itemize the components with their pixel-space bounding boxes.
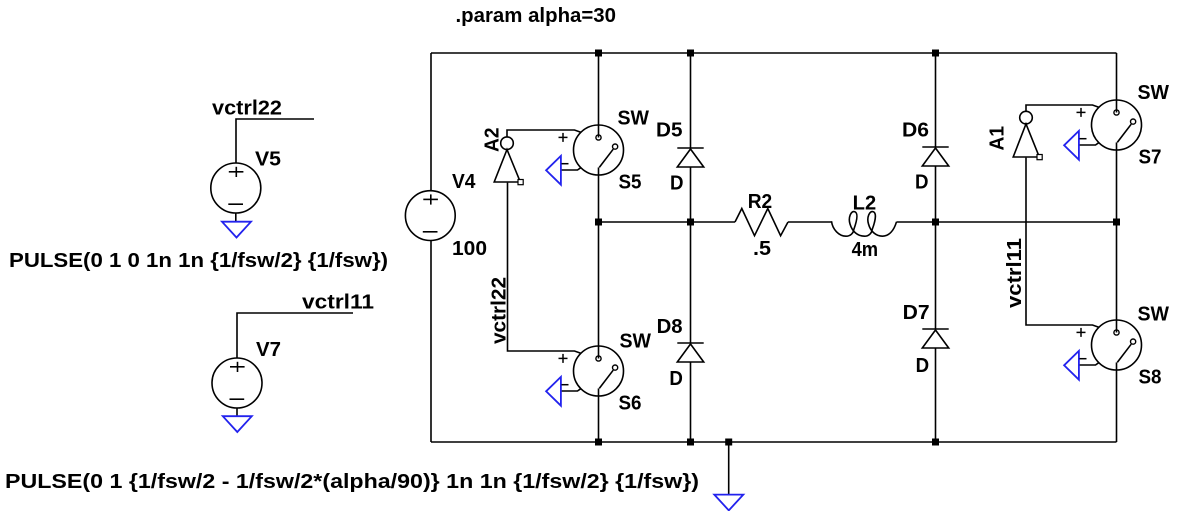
wire D6-column lower (D6 to mid rail) (935, 166, 937, 222)
wire D5-column upper (top rail to D5) (690, 53, 692, 148)
wire right rail top (top rail to S7) (1116, 53, 1118, 113)
diode D5 (677, 147, 703, 149)
svg-text:S7: S7 (1139, 147, 1162, 169)
svg-text:vctrl11: vctrl11 (302, 291, 374, 313)
resistor R2 (735, 209, 788, 236)
switch S8 body (1092, 320, 1142, 370)
diode D7 (922, 328, 948, 330)
wire A2 input to S6 + pin (vctrl22 net) (508, 183, 581, 354)
wire mid rail left (S-col to R2) (599, 221, 736, 223)
svg-text:A2: A2 (482, 128, 504, 153)
svg-text:D8: D8 (657, 316, 683, 338)
voltage source V5 (211, 163, 261, 213)
wire D5-column lower (D5 to mid rail) (690, 167, 692, 222)
voltage source V4 (405, 191, 455, 241)
svg-text:PULSE(0 1 0 1n 1n {1/fsw/2} {1: PULSE(0 1 0 1n 1n {1/fsw/2} {1/fsw}) (9, 250, 388, 272)
wire S-column top (top rail to S5) (598, 53, 600, 138)
switch S7 - pin stub (1079, 143, 1099, 145)
wire S-column lower (mid rail to S6) (598, 222, 600, 359)
wire D8-column upper (mid rail to D8) (690, 222, 692, 343)
wire left rail lower (V4 to bottom rail) (430, 241, 432, 443)
junction mid rail / right rail (1113, 219, 1120, 226)
svg-text:SW: SW (620, 330, 652, 352)
switch S6 body (574, 346, 624, 396)
svg-text:S5: S5 (619, 172, 642, 194)
wire D6-column upper (top rail to D6) (935, 53, 937, 147)
wire right rail bottom (S8 to bottom rail) (1116, 362, 1118, 442)
svg-text:V5: V5 (255, 149, 281, 171)
svg-text:SW: SW (618, 107, 650, 129)
svg-text:vctrl11: vctrl11 (1004, 238, 1026, 308)
switch S7 polarity marks (1077, 111, 1086, 113)
wire D8-column lower (D8 to bottom rail) (690, 362, 692, 442)
switch S5 control arrow (546, 156, 561, 185)
voltage source V7 (212, 358, 262, 408)
switch S6 polarity marks (559, 357, 568, 359)
svg-text:L2: L2 (853, 193, 877, 215)
junction bottom rail / D7 column (932, 439, 939, 446)
junction top rail / D5 column (687, 50, 694, 57)
wire bottom rail to ground (728, 442, 730, 494)
wire left rail upper (top rail to V4) (430, 53, 432, 191)
svg-text:R2: R2 (748, 191, 773, 213)
inverter A2 (501, 137, 514, 150)
svg-text:D: D (916, 355, 930, 377)
ground (node 0, bottom) (714, 495, 743, 511)
junction mid rail / D6-column (932, 219, 939, 226)
switch S7 control arrow (1064, 131, 1079, 160)
svg-text:SW: SW (1138, 303, 1170, 325)
junction top rail / S-column (595, 50, 602, 57)
wire vctrl11 horizontal (V7 top) (237, 313, 353, 358)
svg-text:4m: 4m (852, 239, 879, 261)
switch S5 - pin stub (561, 168, 581, 170)
svg-text:D6: D6 (902, 119, 929, 141)
junction bottom rail / S-column (595, 439, 602, 446)
switch S8 control arrow (1064, 351, 1079, 380)
svg-text:A1: A1 (987, 126, 1009, 151)
svg-text:V4: V4 (452, 171, 476, 193)
ground (V5) (222, 222, 251, 238)
svg-text:D: D (670, 172, 684, 194)
diode D6 (922, 146, 948, 148)
ground (V7) (223, 416, 252, 432)
switch S6 control arrow (546, 377, 561, 406)
junction mid rail / S-column (595, 219, 602, 226)
wire V7 to ground (236, 408, 238, 416)
diode D8 (677, 342, 703, 344)
junction bottom rail / ground (725, 439, 732, 446)
wire S-column middle (S5 to mid rail) (598, 167, 600, 222)
switch S5 body (574, 125, 624, 175)
svg-text:S8: S8 (1139, 367, 1162, 389)
wire right rail mid-lower (mid rail to S8) (1116, 222, 1118, 333)
switch S5 polarity marks (559, 136, 568, 138)
svg-text:PULSE(0 1 {1/fsw/2 - 1/fsw/2*(: PULSE(0 1 {1/fsw/2 - 1/fsw/2*(alpha/90)}… (5, 471, 699, 493)
svg-text:vctrl22: vctrl22 (212, 98, 282, 120)
inverter A1 (1020, 111, 1033, 124)
svg-text:D: D (669, 368, 683, 390)
wire A1 input to S8 + pin (vctrl11 net) (1026, 158, 1099, 328)
wire right rail mid-upper (S7 to mid rail) (1116, 142, 1118, 222)
wire vctrl22 horizontal (V5 top) (236, 119, 314, 163)
wire A1 output to S7 + pin (1026, 105, 1099, 111)
svg-text:D: D (915, 171, 929, 193)
svg-text:100: 100 (452, 238, 487, 260)
switch S7 body (1092, 100, 1142, 150)
wire bottom rail (431, 441, 1117, 443)
wire D7-column lower (D7 to bottom rail) (935, 348, 937, 442)
svg-text:.5: .5 (753, 238, 771, 260)
wire A2 output to S5 + pin (507, 130, 581, 137)
wire D7-column upper (mid rail to D7) (935, 222, 937, 329)
wire mid rail center (R2 to L2) (788, 221, 832, 223)
wire V5 to ground (235, 213, 237, 222)
wire mid rail right (L2 to right rail) (897, 221, 1117, 223)
junction bottom rail / D8 column (687, 439, 694, 446)
svg-text:D5: D5 (656, 119, 683, 141)
svg-text:V7: V7 (256, 339, 281, 361)
switch S8 polarity marks (1077, 331, 1086, 333)
junction mid rail / D-column (687, 219, 694, 226)
svg-text:.param alpha=30: .param alpha=30 (456, 5, 617, 27)
inductor L2 (832, 212, 897, 237)
junction top rail / D6 column (932, 50, 939, 57)
svg-text:SW: SW (1138, 82, 1170, 104)
svg-text:S6: S6 (619, 393, 642, 415)
svg-text:vctrl22: vctrl22 (489, 277, 511, 344)
switch S8 - pin stub (1079, 363, 1099, 365)
switch S6 - pin stub (561, 389, 581, 391)
wire top rail (431, 52, 1117, 54)
wire S-column bottom (S6 to bottom rail) (598, 388, 600, 442)
svg-text:D7: D7 (903, 302, 930, 324)
